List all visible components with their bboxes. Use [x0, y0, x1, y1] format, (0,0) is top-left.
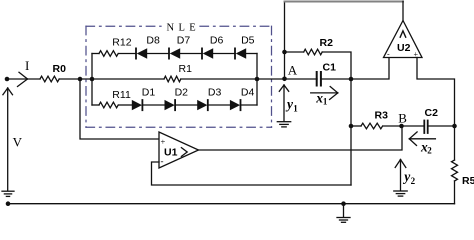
node junction to U1+ branch — [78, 77, 83, 82]
node B — [398, 110, 407, 128]
capacitor C1 — [317, 62, 336, 86]
op-amp U2 — [384, 21, 423, 59]
wire right rail down to R5 — [454, 126, 456, 160]
wire x351 down segment — [350, 79, 352, 185]
svg-text:D5: D5 — [241, 35, 255, 47]
diode D5 — [235, 35, 255, 59]
node R2 branch junction — [282, 50, 287, 55]
diode D8 — [136, 35, 160, 59]
node ground junction — [341, 201, 346, 206]
svg-text:R3: R3 — [375, 110, 389, 122]
arrow x2 — [409, 132, 435, 155]
resistor R11 — [99, 89, 131, 108]
wire D3 to D4 — [208, 104, 230, 106]
wire NLE to node A — [257, 78, 285, 80]
svg-text:U2: U2 — [397, 42, 411, 54]
svg-text:2: 2 — [427, 145, 432, 155]
wire U1 output to B riser — [199, 126, 403, 150]
arrow y2 — [395, 160, 415, 191]
wire riser A up — [284, 1, 286, 79]
node right connector junction — [255, 77, 260, 82]
arrow y1 — [279, 85, 298, 121]
arrow x1 — [311, 87, 338, 107]
svg-text:D1: D1 — [142, 87, 156, 99]
node left connector junction — [90, 77, 95, 82]
NLE box dashed border — [86, 26, 272, 127]
wire R11 to D1 — [119, 104, 132, 106]
svg-text:D7: D7 — [177, 35, 191, 47]
svg-text:D3: D3 — [208, 87, 222, 99]
svg-text:+: + — [161, 137, 166, 147]
node right rail junction — [452, 124, 457, 129]
ground under y2 — [394, 191, 407, 196]
wire R12 to D8 — [119, 53, 136, 55]
NLE right connector wire — [256, 54, 258, 106]
resistor R1 — [164, 63, 192, 82]
wire top row lead — [92, 53, 99, 55]
svg-text:R1: R1 — [179, 63, 193, 75]
node A — [282, 63, 298, 82]
svg-text:1: 1 — [293, 103, 298, 113]
wire A to C1 — [285, 78, 318, 80]
wire U1 feedback from inverting input — [152, 162, 352, 185]
wire middle row right — [181, 78, 257, 80]
wire U2 + input down and right — [417, 58, 455, 127]
wire D5 to right connector — [246, 53, 257, 55]
wire R0 to junction — [59, 78, 92, 80]
wire D1 to D2 — [142, 104, 164, 106]
svg-text:2: 2 — [411, 176, 416, 186]
wire junction to U2 inverting input — [351, 58, 389, 80]
ground under y1 — [277, 122, 290, 127]
op-amp U1 — [159, 132, 199, 168]
capacitor C2 — [424, 107, 438, 133]
wire input to R0 — [7, 78, 40, 80]
diode D3 — [197, 87, 221, 111]
wire C2 to right rail — [428, 125, 455, 127]
wire D8 to D7 — [147, 53, 169, 55]
resistor R0 — [40, 63, 66, 82]
wire C1 to junction — [321, 78, 351, 80]
wire R2 right then down — [322, 52, 351, 79]
wire B to C2 — [402, 125, 425, 127]
diode D1 — [132, 87, 156, 111]
svg-text:D6: D6 — [210, 35, 224, 47]
svg-text:B: B — [398, 110, 407, 125]
wire to R3 — [351, 125, 361, 127]
svg-text:R11: R11 — [112, 89, 131, 101]
svg-text:NLE: NLE — [167, 23, 201, 34]
svg-text:D8: D8 — [146, 35, 160, 47]
resistor R2 — [304, 37, 333, 55]
ground under V — [2, 191, 14, 196]
wire bottom rail — [8, 203, 455, 205]
current arrow I — [18, 58, 30, 87]
svg-text:D2: D2 — [175, 87, 189, 99]
svg-text:C2: C2 — [425, 107, 439, 119]
wire R5 to bottom rail — [454, 181, 456, 204]
diode D7 — [169, 35, 190, 59]
wire middle row left — [92, 78, 164, 80]
bottom rail terminal dot — [6, 201, 11, 206]
svg-text:R2: R2 — [320, 37, 334, 49]
diode D6 — [202, 35, 223, 59]
resistor R5 — [452, 160, 474, 187]
wire D2 to D3 — [175, 104, 197, 106]
svg-text:I: I — [25, 58, 29, 73]
svg-text:R5: R5 — [462, 175, 474, 187]
svg-text:A: A — [288, 63, 298, 78]
wire D4 to right connector — [241, 104, 258, 106]
wire D6 to D5 — [213, 53, 235, 55]
voltage arrow V — [3, 88, 23, 191]
node C1/R2/R3 junction — [349, 77, 354, 82]
svg-text:R12: R12 — [112, 36, 131, 48]
wire R3 to B — [384, 125, 402, 127]
ground bottom — [337, 204, 350, 223]
input terminal dot — [5, 77, 10, 82]
wire top rail — [285, 1, 404, 3]
svg-text:V: V — [13, 134, 23, 149]
wire D7 to D6 — [180, 53, 202, 55]
svg-text:1: 1 — [323, 97, 328, 107]
svg-text:C1: C1 — [323, 62, 337, 74]
svg-text:+: + — [414, 50, 419, 59]
svg-text:R0: R0 — [53, 63, 67, 75]
resistor R12 — [99, 36, 132, 56]
node R3 left junction — [349, 124, 354, 129]
wire bottom row lead — [92, 104, 99, 106]
wire riser to U2 output — [402, 1, 404, 20]
svg-text:D4: D4 — [241, 87, 255, 99]
diode D4 — [230, 87, 255, 111]
svg-text:-: - — [387, 50, 390, 59]
NLE left connector wire — [91, 54, 93, 106]
diode D2 — [165, 87, 189, 111]
wire branch down to U1 + input — [80, 79, 159, 139]
resistor R3 — [361, 110, 388, 129]
svg-text:U1: U1 — [164, 147, 178, 159]
wire A to R2 — [285, 51, 304, 53]
